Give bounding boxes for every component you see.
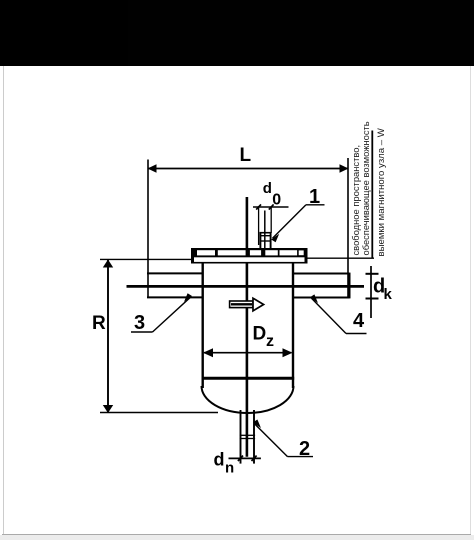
svg-text:0: 0 bbox=[272, 192, 281, 209]
svg-text:k: k bbox=[384, 286, 393, 303]
svg-text:3: 3 bbox=[134, 312, 145, 334]
svg-text:2: 2 bbox=[299, 438, 310, 460]
svg-text:d: d bbox=[263, 180, 272, 197]
svg-text:d: d bbox=[214, 450, 225, 470]
svg-text:D: D bbox=[253, 324, 267, 345]
svg-text:4: 4 bbox=[353, 310, 365, 332]
svg-text:обеспечивающее возможность: обеспечивающее возможность bbox=[361, 121, 371, 255]
svg-text:1: 1 bbox=[309, 186, 320, 208]
svg-text:n: n bbox=[225, 460, 234, 477]
svg-text:z: z bbox=[266, 333, 274, 350]
svg-text:R: R bbox=[92, 313, 106, 334]
svg-text:выемки магнитного узла – W: выемки магнитного узла – W bbox=[376, 127, 387, 256]
svg-text:L: L bbox=[240, 145, 252, 166]
svg-text:свободное пространство,: свободное пространство, bbox=[350, 145, 361, 256]
